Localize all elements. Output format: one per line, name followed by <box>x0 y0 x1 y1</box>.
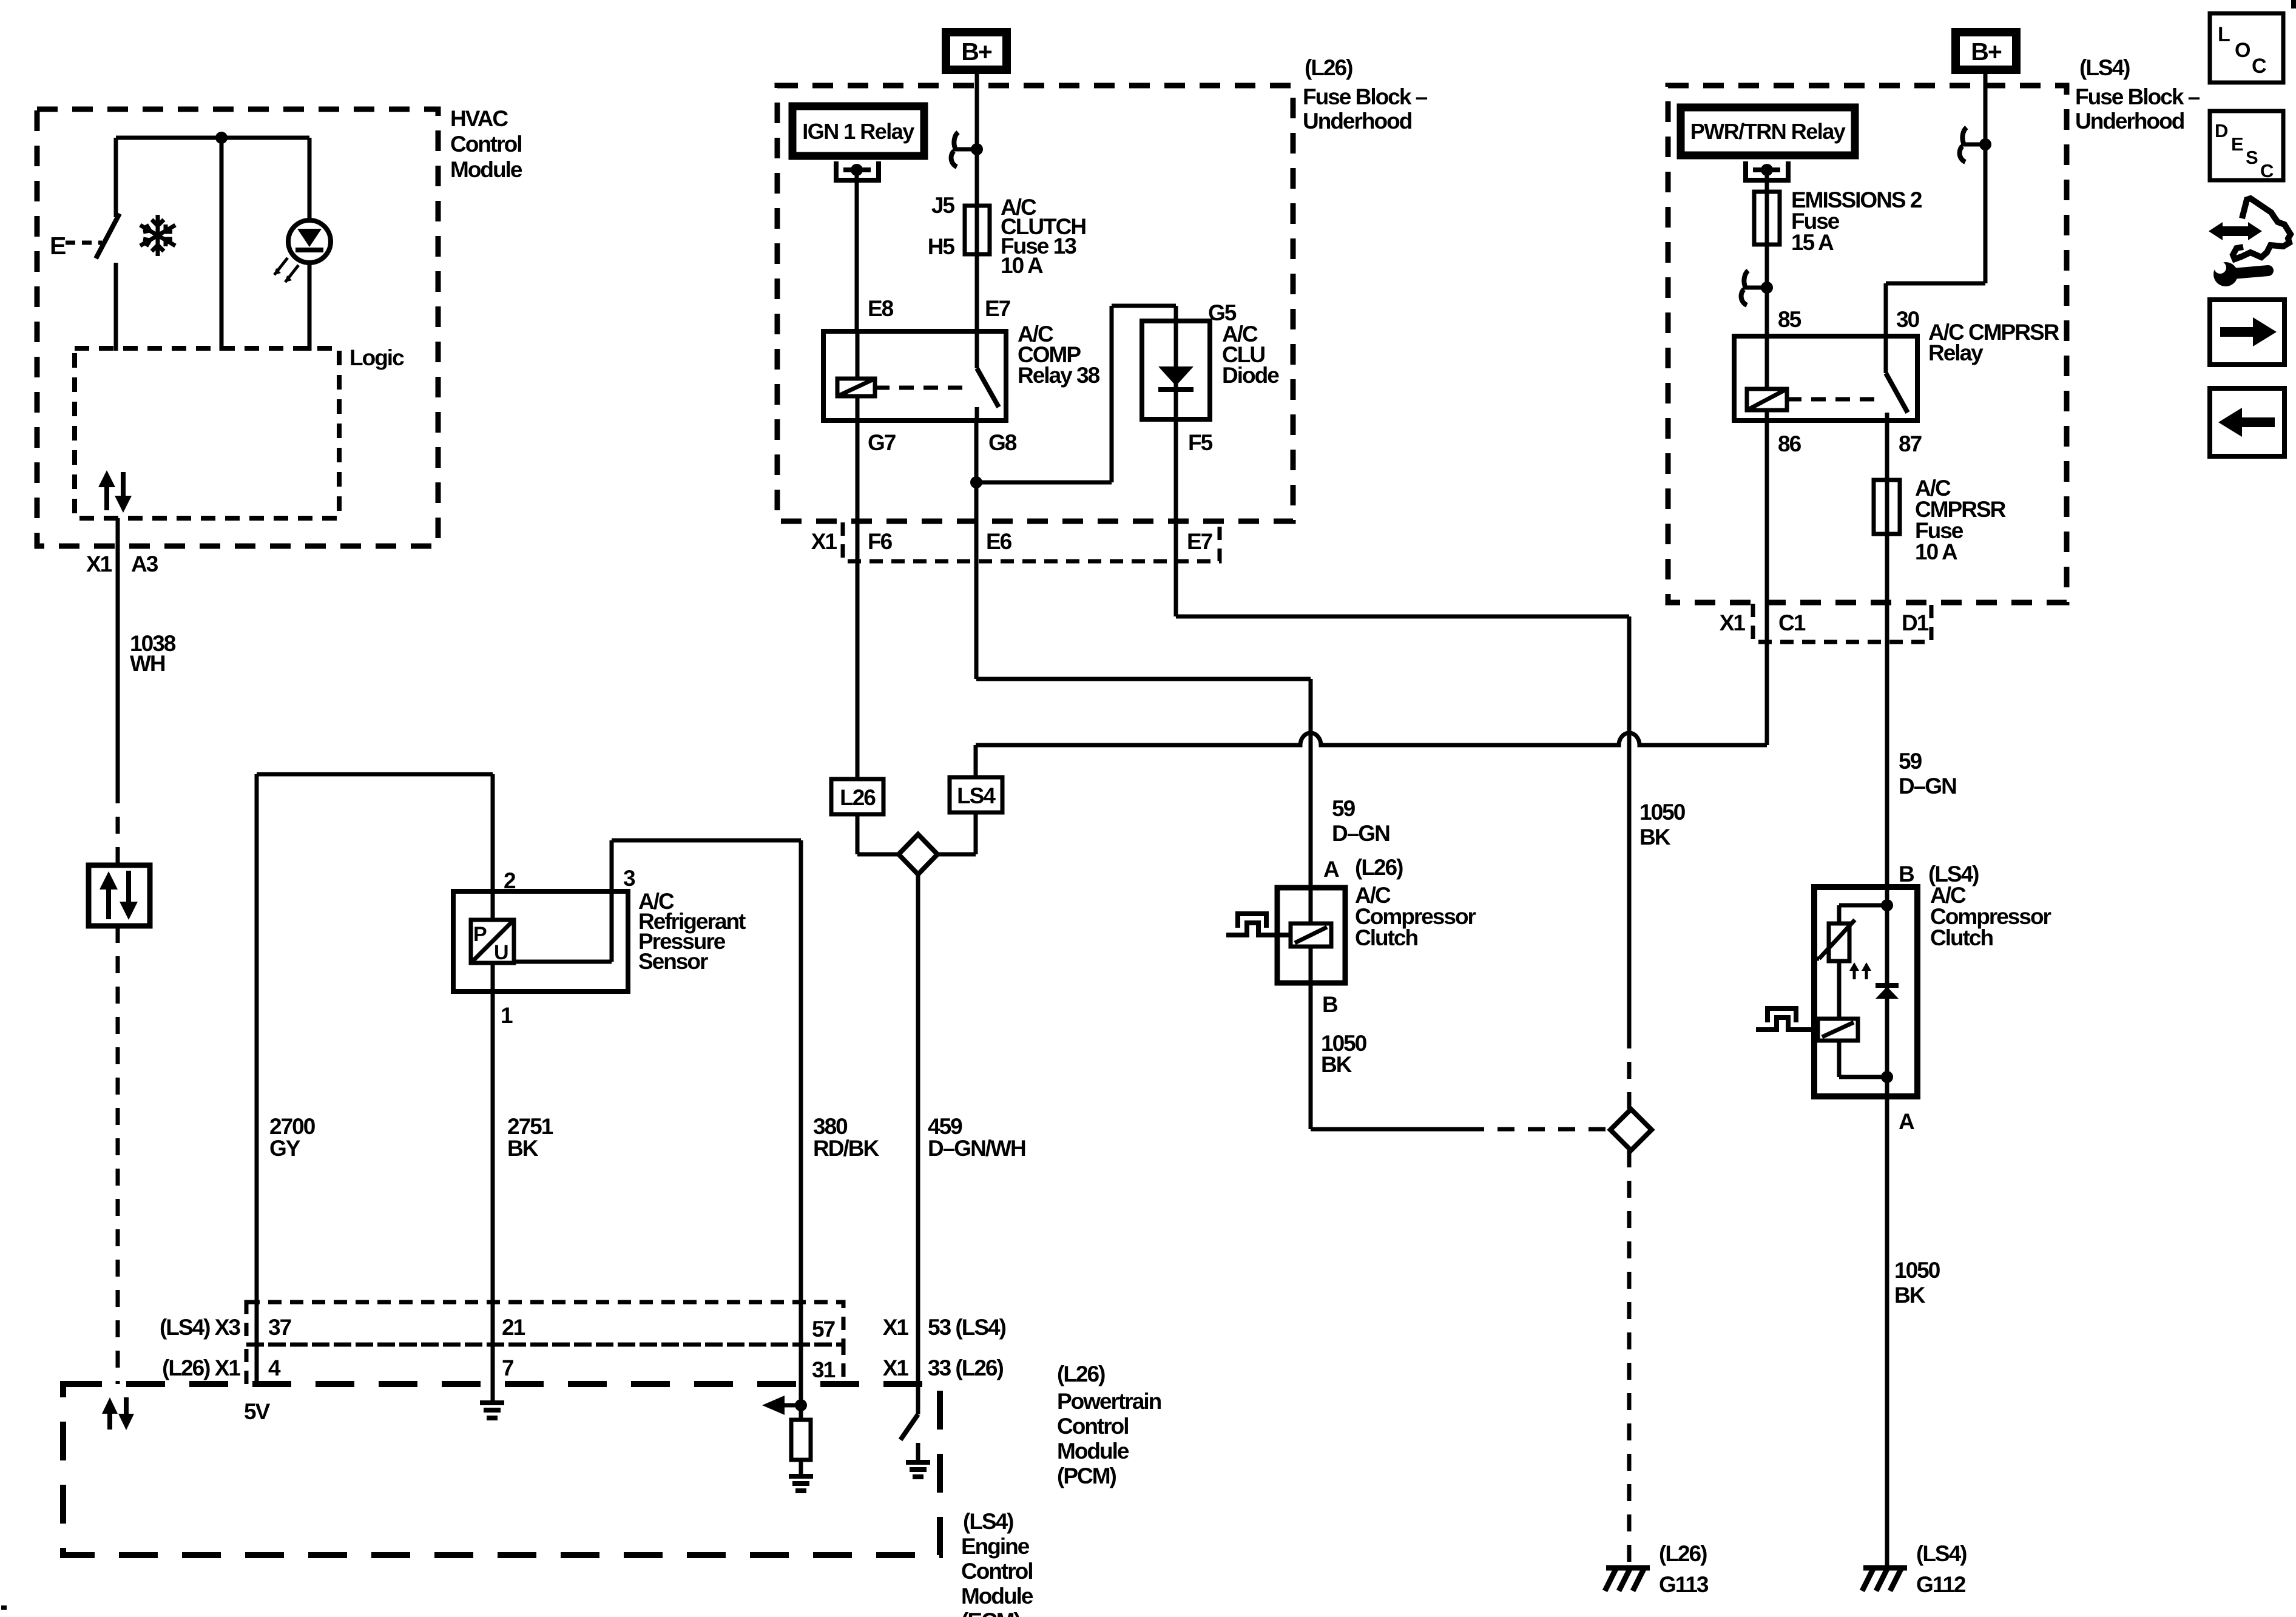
svg-text:BK: BK <box>507 1136 539 1161</box>
svg-text:F6: F6 <box>868 529 893 554</box>
svg-text:Clutch: Clutch <box>1355 925 1418 950</box>
svg-text:F5: F5 <box>1188 430 1213 455</box>
svg-text:RD/BK: RD/BK <box>813 1136 879 1161</box>
svg-text:D1: D1 <box>1902 610 1929 635</box>
svg-text:B+: B+ <box>1971 38 2002 66</box>
svg-text:X1: X1 <box>883 1315 909 1340</box>
svg-text:Relay 38: Relay 38 <box>1018 363 1100 388</box>
svg-text:10 A: 10 A <box>1001 253 1043 278</box>
svg-text:GY: GY <box>269 1136 301 1161</box>
svg-text:BK: BK <box>1894 1283 1926 1308</box>
svg-text:Relay: Relay <box>1928 340 1984 365</box>
svg-text:(ECM): (ECM) <box>961 1609 1021 1617</box>
svg-text:G112: G112 <box>1916 1572 1966 1597</box>
svg-text:G7: G7 <box>868 430 896 455</box>
svg-text:1050: 1050 <box>1639 800 1686 825</box>
svg-text:37: 37 <box>268 1315 291 1340</box>
svg-text:B+: B+ <box>961 38 992 66</box>
svg-text:S: S <box>2246 147 2258 168</box>
svg-text:D: D <box>2215 120 2228 141</box>
svg-text:Fuse Block –: Fuse Block – <box>1303 84 1428 109</box>
svg-text:G113: G113 <box>1659 1572 1709 1597</box>
svg-text:A: A <box>1899 1109 1914 1134</box>
svg-text:Engine: Engine <box>961 1534 1030 1559</box>
svg-text:Sensor: Sensor <box>638 949 708 974</box>
svg-text:Module: Module <box>961 1584 1033 1609</box>
svg-text:B: B <box>1899 862 1914 886</box>
svg-text:(LS4): (LS4) <box>2079 55 2130 80</box>
svg-text:PWR/TRN Relay: PWR/TRN Relay <box>1690 119 1846 144</box>
svg-text:P: P <box>473 923 487 946</box>
svg-text:3: 3 <box>623 866 635 891</box>
svg-text:85: 85 <box>1778 307 1801 332</box>
svg-text:Control: Control <box>450 132 522 157</box>
svg-text:E: E <box>2231 133 2243 155</box>
svg-text:4: 4 <box>268 1355 281 1380</box>
svg-text:87: 87 <box>1899 431 1922 456</box>
svg-text:(L26): (L26) <box>1057 1362 1105 1386</box>
svg-text:Underhood: Underhood <box>2075 109 2184 133</box>
svg-text:(L26) X1: (L26) X1 <box>162 1355 240 1380</box>
svg-text:D–GN/WH: D–GN/WH <box>928 1136 1025 1161</box>
svg-text:Control: Control <box>1057 1414 1129 1439</box>
svg-text:53 (LS4): 53 (LS4) <box>928 1315 1006 1340</box>
svg-text:U: U <box>494 941 508 964</box>
svg-text:X1: X1 <box>86 552 112 576</box>
svg-text:HVAC: HVAC <box>450 106 508 131</box>
svg-text:E7: E7 <box>1187 529 1212 554</box>
svg-text:IGN 1 Relay: IGN 1 Relay <box>802 119 914 144</box>
svg-text:2: 2 <box>504 868 516 893</box>
svg-text:BK: BK <box>1321 1052 1352 1077</box>
svg-text:L26: L26 <box>840 785 876 810</box>
svg-text:1: 1 <box>501 1003 513 1028</box>
svg-text:Diode: Diode <box>1222 363 1279 388</box>
svg-text:G8: G8 <box>988 430 1017 455</box>
svg-text:A3: A3 <box>131 552 158 576</box>
svg-text:59: 59 <box>1899 749 1922 774</box>
svg-text:Module: Module <box>1057 1439 1129 1463</box>
svg-text:10 A: 10 A <box>1915 539 1957 564</box>
svg-text:A: A <box>1323 857 1339 882</box>
svg-text:C: C <box>2260 160 2274 181</box>
svg-text:(LS4): (LS4) <box>963 1509 1013 1534</box>
svg-text:459: 459 <box>928 1114 962 1139</box>
svg-text:E6: E6 <box>986 529 1012 554</box>
svg-text:5V: 5V <box>244 1399 271 1424</box>
svg-text:2751: 2751 <box>507 1114 553 1139</box>
svg-text:LS4: LS4 <box>957 783 996 808</box>
svg-text:E8: E8 <box>868 296 894 321</box>
svg-text:E: E <box>50 232 66 260</box>
svg-text:(LS4): (LS4) <box>1916 1541 1967 1566</box>
svg-text:(LS4) X3: (LS4) X3 <box>160 1315 240 1340</box>
svg-text:Module: Module <box>450 157 522 182</box>
svg-text:1050: 1050 <box>1894 1258 1940 1283</box>
svg-text:B: B <box>1322 992 1338 1017</box>
svg-text:X1: X1 <box>811 529 837 554</box>
svg-text:J5: J5 <box>931 193 955 218</box>
svg-text:C: C <box>2252 55 2266 78</box>
svg-text:Logic: Logic <box>349 345 404 370</box>
svg-text:Powertrain: Powertrain <box>1057 1389 1161 1414</box>
svg-text:(L26): (L26) <box>1305 55 1352 80</box>
svg-text:Clutch: Clutch <box>1930 925 1993 950</box>
svg-text:15 A: 15 A <box>1791 230 1834 255</box>
svg-text:21: 21 <box>502 1315 525 1340</box>
svg-text:7: 7 <box>502 1355 513 1380</box>
svg-text:D–GN: D–GN <box>1332 821 1389 846</box>
svg-text:57: 57 <box>812 1317 835 1342</box>
svg-text:H5: H5 <box>928 234 955 259</box>
svg-text:C1: C1 <box>1778 610 1806 635</box>
svg-text:O: O <box>2235 39 2250 62</box>
svg-text:380: 380 <box>813 1114 848 1139</box>
svg-text:WH: WH <box>130 651 165 676</box>
svg-text:59: 59 <box>1332 796 1356 821</box>
svg-text:2700: 2700 <box>269 1114 316 1139</box>
svg-text:30: 30 <box>1896 307 1920 332</box>
svg-text:BK: BK <box>1639 825 1671 849</box>
svg-text:Control: Control <box>961 1559 1033 1584</box>
svg-text:33 (L26): 33 (L26) <box>928 1355 1004 1380</box>
svg-text:E7: E7 <box>985 296 1010 321</box>
svg-text:(L26): (L26) <box>1659 1541 1707 1566</box>
svg-text:D–GN: D–GN <box>1899 774 1956 798</box>
svg-text:(L26): (L26) <box>1355 855 1403 880</box>
svg-text:Underhood: Underhood <box>1303 109 1412 133</box>
svg-text:X1: X1 <box>883 1355 909 1380</box>
svg-text:L: L <box>2218 23 2230 46</box>
svg-text:X1: X1 <box>1720 610 1746 635</box>
svg-text:86: 86 <box>1778 431 1801 456</box>
svg-text:31: 31 <box>812 1357 836 1382</box>
svg-text:(PCM): (PCM) <box>1057 1463 1116 1488</box>
svg-text:Fuse Block –: Fuse Block – <box>2075 84 2200 109</box>
